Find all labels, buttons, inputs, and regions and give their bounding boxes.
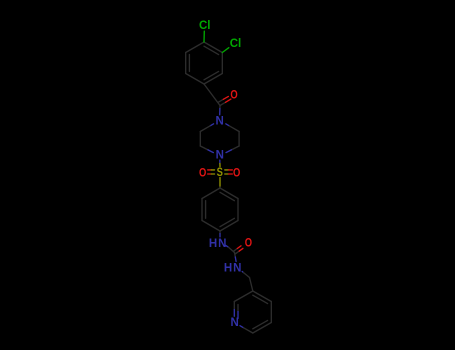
- urea C2=O2 double bond line b: [234, 249, 238, 252]
- bond D to carbonyl C1: [204, 84, 220, 106]
- bond S to ring 2: [219, 178, 221, 188]
- svg-text:O: O: [230, 89, 237, 102]
- piperazine bond N1-Cb: [226, 124, 230, 126]
- svg-text:O: O: [199, 167, 206, 180]
- carbonyl C1=O1 double bond main line: [220, 102, 226, 105]
- sulfonyl S=O right double bond: [225, 169, 229, 171]
- bond C-Cl1: [203, 31, 205, 42]
- svg-text:N: N: [216, 150, 224, 162]
- pyridine bond C4-C3: [253, 291, 271, 302]
- ring 2 inner double line Hl-Il: [205, 201, 207, 219]
- bond HN2-CH2: [242, 272, 243, 273]
- pyridine bond C3-C2p: [234, 291, 253, 302]
- pyridine bond Np-C6: [240, 326, 244, 328]
- svg-text:HN: HN: [224, 263, 243, 275]
- ring 2 bond Il-J: [202, 221, 220, 232]
- ring 2 bond Hl-Il: [201, 199, 203, 221]
- piperazine bond Ca-Cc: [199, 132, 201, 147]
- ring 2 bond Hr-G: [220, 188, 238, 199]
- svg-text:N: N: [230, 317, 238, 329]
- bond C1-N1: [219, 106, 221, 109]
- ring 1 inner double line C-D: [204, 71, 219, 79]
- carbonyl C1=O1 double bond inner line: [218, 99, 223, 102]
- svg-text:O: O: [245, 237, 252, 250]
- svg-text:Cl: Cl: [230, 38, 242, 50]
- ring 2 inner double line J-Ir: [220, 218, 234, 226]
- ring 1 bond C-D: [204, 74, 222, 85]
- bond C2-HN2: [234, 253, 237, 258]
- pyridine bond C2p-Np: [233, 302, 235, 310]
- bond CH2 to pyridine C3: [250, 278, 253, 292]
- urea C2=O2 double bond line a: [235, 251, 239, 254]
- pyridine bond C5-C4: [270, 302, 272, 323]
- sulfonyl S=O left double bond: [208, 169, 212, 171]
- bond HN1-C2 urea: [226, 246, 229, 248]
- piperazine bond Cd-N2: [231, 146, 239, 150]
- ring 1 bond F-A: [186, 42, 204, 53]
- pyridine bond C6-C5: [253, 323, 271, 334]
- benzene ring 2 bond G-Hl: [202, 188, 220, 199]
- svg-text:O: O: [233, 167, 240, 180]
- svg-text:S: S: [217, 166, 223, 179]
- svg-text:Cl: Cl: [199, 20, 211, 32]
- ring 2 bond J-Ir: [220, 221, 238, 232]
- piperazine bond Cc-N2: [200, 146, 208, 150]
- svg-text:HN: HN: [209, 238, 228, 250]
- svg-text:N: N: [216, 116, 224, 128]
- bond C-Cl2: [222, 48, 229, 53]
- bond ring2 J to NH (urea): [219, 231, 221, 234]
- ring 1 inner double line E-F: [188, 55, 190, 72]
- ring 1 bond D-E: [186, 74, 204, 85]
- ring 1 bond B-C: [221, 53, 223, 74]
- ring 2 inner double line Hr-G: [220, 192, 234, 200]
- pyridine inner double line C5-C6: [253, 320, 268, 328]
- ring 2 bond Ir-Hr: [237, 199, 239, 221]
- pyridine inner double line C2p-Np: [237, 305, 239, 312]
- piperazine bond Cb-Cd: [238, 132, 240, 147]
- pyridine inner double line C3-C4: [253, 295, 268, 303]
- ring 1 inner double line A-B: [204, 46, 219, 54]
- piperazine bond N1-Ca: [210, 124, 214, 126]
- ring 1 bond E-F: [185, 53, 187, 74]
- bond N2-S: [219, 160, 221, 163]
- benzene ring 1 (2,3-dichlorophenyl) bond A-B: [204, 42, 222, 53]
